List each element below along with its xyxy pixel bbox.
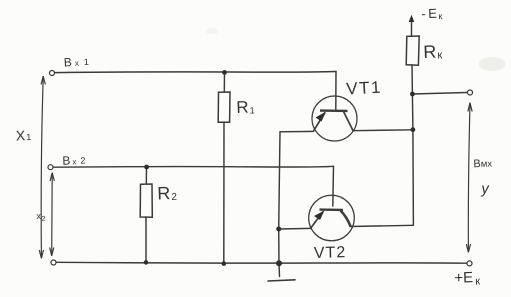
svg-text:VT2: VT2 bbox=[314, 244, 347, 262]
svg-text:VT1: VT1 bbox=[346, 78, 383, 99]
svg-text:Bмx: Bмx bbox=[473, 158, 492, 171]
